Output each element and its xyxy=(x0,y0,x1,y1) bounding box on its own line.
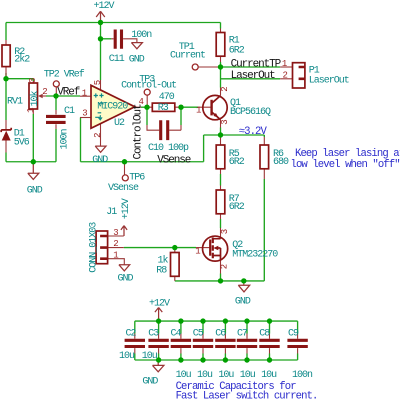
svg-text:1: 1 xyxy=(82,88,87,98)
svg-text:Fast Laser switch current.: Fast Laser switch current. xyxy=(176,391,318,399)
svg-text:C10 100p: C10 100p xyxy=(148,143,189,154)
svg-text:GND: GND xyxy=(235,296,251,307)
svg-text:5V6: 5V6 xyxy=(14,137,30,148)
svg-text:3: 3 xyxy=(220,229,230,234)
svg-text:10u: 10u xyxy=(197,370,213,381)
svg-text:VSense: VSense xyxy=(108,183,139,194)
svg-text:3: 3 xyxy=(220,119,230,124)
svg-text:1: 1 xyxy=(282,59,287,69)
svg-text:2: 2 xyxy=(220,86,230,91)
svg-text:GND: GND xyxy=(142,377,158,388)
svg-text:BCP5616Q: BCP5616Q xyxy=(230,107,271,118)
svg-text:C7: C7 xyxy=(237,328,248,339)
svg-text:R8: R8 xyxy=(156,266,167,277)
svg-text:10k: 10k xyxy=(29,90,41,106)
svg-text:C4: C4 xyxy=(171,328,182,339)
svg-text:C11: C11 xyxy=(109,54,125,65)
svg-text:100n: 100n xyxy=(292,370,313,381)
svg-text:6R2: 6R2 xyxy=(229,202,245,213)
svg-text:LaserOut: LaserOut xyxy=(231,70,276,82)
svg-text:2: 2 xyxy=(42,87,47,97)
svg-text:VRef: VRef xyxy=(57,87,80,99)
svg-text:VSense: VSense xyxy=(157,154,191,166)
svg-text:RV1: RV1 xyxy=(7,97,23,108)
svg-text:+12V: +12V xyxy=(121,198,132,219)
svg-text:5: 5 xyxy=(93,80,103,85)
svg-text:GND: GND xyxy=(92,155,108,166)
svg-text:low level when "off".: low level when "off". xyxy=(291,159,400,171)
svg-text:3: 3 xyxy=(28,78,38,83)
svg-text:10u: 10u xyxy=(218,370,234,381)
svg-text:10u: 10u xyxy=(119,351,135,362)
svg-text:470: 470 xyxy=(159,92,175,103)
svg-text:C2: C2 xyxy=(126,328,137,339)
svg-text:1: 1 xyxy=(26,107,36,112)
svg-text:CONN_01X03: CONN_01X03 xyxy=(88,222,99,273)
svg-text:10u: 10u xyxy=(261,370,277,381)
svg-text:C5: C5 xyxy=(193,328,204,339)
svg-text:C9: C9 xyxy=(288,328,299,339)
svg-text:6R2: 6R2 xyxy=(229,46,245,57)
svg-text:C8: C8 xyxy=(259,328,270,339)
svg-text:3: 3 xyxy=(113,228,118,238)
svg-text:GND: GND xyxy=(118,274,134,285)
svg-text:LaserOut: LaserOut xyxy=(309,76,349,87)
svg-text:U2: U2 xyxy=(114,118,125,129)
svg-text:100n: 100n xyxy=(131,30,152,41)
svg-text:2: 2 xyxy=(283,70,288,80)
svg-text:≈3.2V: ≈3.2V xyxy=(239,126,268,138)
svg-text:C3: C3 xyxy=(148,328,159,339)
svg-text:1: 1 xyxy=(113,251,118,261)
svg-text:2: 2 xyxy=(113,239,118,249)
svg-text:680: 680 xyxy=(273,157,289,168)
svg-text:+12V: +12V xyxy=(94,1,115,12)
svg-text:1: 1 xyxy=(195,246,200,256)
svg-text:GND: GND xyxy=(27,186,43,197)
svg-text:3: 3 xyxy=(82,108,87,118)
svg-text:R3: R3 xyxy=(158,103,169,114)
svg-text:4: 4 xyxy=(139,97,144,107)
svg-text:Control-Out: Control-Out xyxy=(121,80,176,92)
svg-text:2: 2 xyxy=(93,132,103,137)
svg-text:10u: 10u xyxy=(176,370,192,381)
svg-text:MTM232270: MTM232270 xyxy=(232,249,278,260)
svg-text:Current: Current xyxy=(170,51,205,62)
svg-text:10u: 10u xyxy=(142,351,158,362)
svg-text:ControlOut: ControlOut xyxy=(133,104,145,160)
svg-text:10u: 10u xyxy=(240,370,256,381)
svg-text:J1: J1 xyxy=(106,207,117,218)
svg-text:2: 2 xyxy=(220,264,230,269)
svg-text:+12V: +12V xyxy=(149,299,170,310)
svg-text:TP2 VRef: TP2 VRef xyxy=(44,69,85,81)
svg-text:TP6: TP6 xyxy=(129,173,145,184)
svg-text:CurrentTP: CurrentTP xyxy=(231,58,282,70)
svg-text:2k2: 2k2 xyxy=(14,54,30,66)
svg-text:C6: C6 xyxy=(215,328,226,339)
svg-text:6R2: 6R2 xyxy=(229,157,245,168)
svg-text:MIC920: MIC920 xyxy=(97,101,128,112)
svg-text:1: 1 xyxy=(196,106,201,116)
svg-text:100n: 100n xyxy=(60,128,71,149)
svg-text:C1: C1 xyxy=(64,106,75,117)
svg-text:GND: GND xyxy=(129,55,145,66)
